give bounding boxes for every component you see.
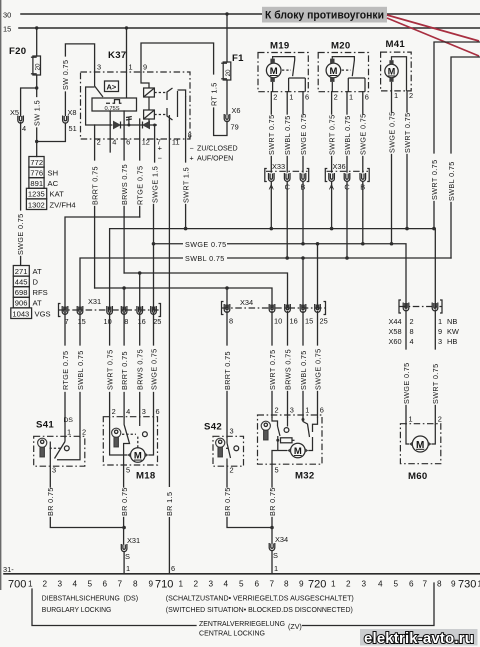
ground connector X31 S	[121, 536, 140, 574]
svg-text:700: 700	[8, 579, 26, 591]
svg-text:SWGE 1.5: SWGE 1.5	[150, 166, 159, 203]
M18 internal switch	[122, 417, 147, 465]
svg-text:M18: M18	[136, 471, 156, 482]
bus SWGE (H2) with inline label	[152, 238, 406, 307]
M18 key symbol	[112, 428, 121, 447]
svg-text:X31: X31	[127, 536, 140, 545]
svg-text:BR 0.75: BR 0.75	[120, 487, 129, 516]
wire label BR 1.5 (K37 pin11 to ground)	[164, 487, 176, 573]
svg-text:SW 1.5: SW 1.5	[32, 100, 41, 126]
svg-text:3: 3	[209, 580, 214, 589]
svg-text:4: 4	[73, 580, 78, 589]
svg-text:RFS: RFS	[33, 288, 48, 297]
S42 pin 2 output	[223, 466, 272, 528]
svg-text:RTGE 0.75: RTGE 0.75	[61, 351, 70, 390]
X36 terminal C	[344, 173, 350, 192]
X31 terminal 16	[137, 306, 146, 326]
bottom text block	[42, 595, 354, 638]
svg-text:2: 2	[275, 406, 279, 415]
svg-text:ZENTRALVERRIEGELUNG: ZENTRALVERRIEGELUNG	[199, 620, 285, 628]
svg-text:BURGLARY LOCKING: BURGLARY LOCKING	[42, 606, 112, 614]
wire label SWGE 1.5 (K37 pin7)	[150, 166, 159, 310]
X33 output wires	[271, 182, 303, 259]
M41 pins 1 2	[392, 91, 414, 112]
svg-text:1: 1	[274, 564, 278, 573]
svg-text:9: 9	[299, 580, 304, 589]
svg-text:2: 2	[273, 93, 277, 102]
svg-text:9: 9	[451, 580, 456, 589]
svg-text:SWGE 0.75: SWGE 0.75	[16, 213, 25, 255]
K37 internal: bottom bus with diodes	[86, 87, 157, 129]
wire branch to X5	[21, 88, 37, 116]
K37 internal: input switch from pin 3	[95, 72, 103, 97]
X33 terminal C	[284, 173, 290, 192]
svg-text:X36: X36	[333, 162, 346, 171]
switch S42 (passenger door lock)	[204, 422, 244, 467]
svg-text:F20: F20	[9, 46, 26, 57]
svg-text:SWRT 0.75: SWRT 0.75	[267, 115, 276, 156]
left scan border	[0, 0, 2, 590]
svg-text:(DS): (DS)	[124, 595, 139, 603]
svg-text:SWRT 0.75: SWRT 0.75	[430, 160, 439, 201]
svg-text:6: 6	[409, 580, 414, 589]
node: F1 feed junction on 30 rail	[225, 12, 228, 15]
svg-text:BRRT 0.75: BRRT 0.75	[90, 166, 99, 205]
X34 terminal 15	[300, 304, 313, 326]
svg-text:5: 5	[275, 466, 279, 475]
svg-text:BRRT 0.75: BRRT 0.75	[120, 351, 129, 390]
svg-text:S: S	[273, 551, 278, 560]
svg-text:RTGE 0.75: RTGE 0.75	[136, 166, 145, 205]
wires X44 to M60	[402, 310, 440, 424]
svg-text:2: 2	[409, 91, 413, 100]
section bracket ZV	[32, 583, 434, 626]
svg-text:A>: A>	[107, 83, 117, 92]
svg-text:BRWS 0.75: BRWS 0.75	[136, 349, 145, 390]
track ref stack 772/776/891/1235/1302	[26, 157, 75, 210]
svg-text:710: 710	[155, 579, 173, 591]
relay K37	[81, 28, 191, 139]
fuse F20	[9, 28, 42, 75]
fuse F1	[221, 14, 244, 80]
svg-text:KAT: KAT	[50, 190, 65, 199]
svg-text:SWRT 0.75: SWRT 0.75	[403, 113, 412, 154]
svg-text:BR 0.75: BR 0.75	[268, 487, 277, 516]
svg-text:SWRT 0.75: SWRT 0.75	[268, 350, 277, 391]
svg-text:SWGE 0.75: SWGE 0.75	[402, 362, 411, 404]
svg-text:730: 730	[458, 579, 476, 591]
S41 pin 3 output	[46, 466, 124, 528]
svg-text:(SWITCHED SITUATION• BLOCKED.D: (SWITCHED SITUATION• BLOCKED.DS DISCONNE…	[166, 606, 353, 614]
X31 terminal 25	[151, 306, 162, 326]
svg-text:SWBL 0.75: SWBL 0.75	[343, 115, 352, 155]
svg-text:BR 0.75: BR 0.75	[223, 487, 232, 516]
svg-text:6: 6	[103, 580, 108, 589]
K37 internal: changeover contact	[167, 88, 186, 121]
svg-text:SWBL 0.75: SWBL 0.75	[185, 254, 225, 263]
svg-text:9: 9	[143, 63, 147, 72]
svg-text:NB: NB	[447, 317, 457, 326]
connector X44/X58/X60	[389, 300, 459, 346]
svg-text:15: 15	[78, 317, 86, 326]
svg-text:8: 8	[437, 580, 442, 589]
svg-text:SWGE 0.75: SWGE 0.75	[359, 113, 368, 155]
svg-text:К блоку противоугонки: К блоку противоугонки	[265, 10, 384, 22]
svg-text:5: 5	[126, 466, 130, 475]
labels ZU/CLOSED AUF/OPEN	[190, 145, 238, 163]
svg-text:10: 10	[274, 317, 282, 326]
svg-text:D: D	[33, 278, 39, 287]
M19 motor	[266, 59, 281, 82]
svg-text:30: 30	[3, 11, 11, 20]
red pointer line 2	[387, 18, 479, 56]
svg-text:772: 772	[30, 158, 43, 167]
bus SWRT (H1)	[110, 227, 436, 310]
M32 key symbol	[261, 421, 270, 440]
M19 internal switch	[273, 57, 306, 92]
svg-text:ZU/CLOSED: ZU/CLOSED	[197, 145, 238, 153]
svg-text:SW 0.75: SW 0.75	[61, 60, 70, 90]
M20 motor	[326, 59, 341, 82]
svg-text:SWRT 1.5: SWRT 1.5	[181, 167, 190, 203]
motor assembly M19	[258, 41, 308, 92]
svg-text:2: 2	[82, 428, 86, 437]
svg-text:12: 12	[142, 138, 150, 147]
wire label BRRT 0.75 (K37 pin2)	[90, 166, 99, 288]
svg-text:M32: M32	[295, 471, 315, 482]
svg-text:271: 271	[15, 267, 28, 276]
svg-text:2: 2	[194, 580, 199, 589]
svg-text:2: 2	[410, 317, 414, 326]
svg-text:AT: AT	[33, 267, 43, 276]
svg-text:51: 51	[69, 124, 77, 133]
svg-text:1: 1	[289, 93, 293, 102]
svg-text:2: 2	[346, 580, 351, 589]
svg-text:M: M	[330, 66, 338, 77]
svg-text:X60: X60	[389, 337, 402, 346]
svg-text:X8: X8	[68, 108, 77, 117]
svg-text:1: 1	[126, 564, 130, 573]
S42 contacts	[226, 437, 239, 466]
svg-text:SH: SH	[48, 169, 59, 178]
svg-text:6: 6	[255, 580, 260, 589]
svg-text:SWBL 0.75: SWBL 0.75	[76, 350, 85, 390]
svg-text:20: 20	[225, 69, 232, 77]
svg-text:906: 906	[15, 299, 28, 308]
X34 terminal 10	[269, 304, 282, 326]
X36 output wires	[332, 182, 363, 259]
svg-text:1: 1	[394, 91, 398, 100]
node: F20 feed junction on 15 rail	[35, 26, 38, 29]
M32 pin 5 output	[268, 464, 279, 543]
svg-text:3: 3	[58, 580, 63, 589]
red pointer line 1	[387, 15, 479, 41]
svg-text:1: 1	[305, 406, 309, 415]
K37 internal: relay coil 1	[141, 72, 166, 97]
svg-text:S42: S42	[204, 422, 222, 433]
svg-text:BR 1.5: BR 1.5	[165, 492, 174, 516]
X31 lower wire labels	[61, 348, 159, 390]
svg-text:AT: AT	[33, 299, 43, 308]
svg-text:X34: X34	[240, 298, 253, 307]
X31 terminal 7	[62, 306, 68, 326]
svg-text:15: 15	[305, 317, 313, 326]
svg-text:20: 20	[35, 63, 42, 71]
svg-text:X44: X44	[389, 317, 402, 326]
svg-text:7: 7	[118, 580, 123, 589]
svg-text:AUF/OPEN: AUF/OPEN	[197, 155, 233, 163]
svg-text:(ZV): (ZV)	[288, 623, 302, 631]
svg-text:3: 3	[438, 337, 442, 346]
svg-text:M60: M60	[408, 471, 428, 482]
svg-text:1: 1	[331, 580, 336, 589]
svg-text:S41: S41	[36, 420, 54, 431]
svg-text:SWGE 0.75: SWGE 0.75	[313, 348, 322, 390]
svg-text:SWGE 0.75: SWGE 0.75	[185, 240, 227, 249]
motor M41	[381, 39, 412, 91]
svg-text:6: 6	[365, 93, 369, 102]
M18 pin 5 output	[120, 465, 130, 544]
svg-text:8: 8	[410, 327, 414, 336]
wires X31 to M18	[109, 314, 111, 346]
label to anti-theft unit (gray)	[262, 7, 387, 23]
svg-text:5: 5	[394, 580, 399, 589]
svg-text:(SCHALTZUSTAND• VERRIEGELT.DS: (SCHALTZUSTAND• VERRIEGELT.DS AUSGESCHAL…	[166, 595, 354, 603]
link BRWS to X34 pin 16	[124, 271, 287, 310]
svg-text:7: 7	[270, 580, 275, 589]
svg-text:RT 1.5: RT 1.5	[209, 82, 218, 106]
svg-text:M41: M41	[386, 39, 406, 50]
svg-text:7: 7	[423, 580, 428, 589]
svg-text:X31: X31	[88, 297, 101, 306]
svg-text:ZV/FH4: ZV/FH4	[50, 200, 76, 209]
connector X5 pin 4	[10, 108, 26, 133]
svg-text:3: 3	[52, 466, 56, 475]
S41 contacts	[50, 437, 81, 466]
svg-text:3: 3	[230, 427, 234, 436]
watermark elektrik-avto.ru	[360, 629, 478, 647]
wires X34 to M32	[271, 312, 273, 346]
wire X5 down / label SWGE 0.75	[16, 123, 25, 266]
svg-text:8: 8	[133, 580, 138, 589]
svg-text:SWGE 0.75: SWGE 0.75	[149, 348, 158, 390]
X33 terminal B	[300, 173, 306, 192]
switch S41 (driver door lock)	[34, 417, 86, 466]
svg-text:2: 2	[97, 138, 101, 147]
svg-text:2: 2	[438, 415, 442, 424]
svg-text:9: 9	[149, 580, 154, 589]
svg-text:9: 9	[438, 327, 442, 336]
bus SWBL (H3) with inline label	[80, 252, 451, 310]
X34 terminal 16	[285, 304, 298, 326]
track ref stack 271/445/698/906/1043	[11, 266, 51, 319]
wire down to 772 stack	[36, 142, 38, 157]
svg-text:2: 2	[334, 93, 338, 102]
K37 pin stubs and numbers	[95, 97, 192, 574]
M19 pins 2 1 6	[271, 92, 309, 114]
M41 wire labels	[387, 111, 412, 243]
svg-text:4: 4	[126, 407, 130, 416]
svg-text:1: 1	[28, 580, 33, 589]
svg-text:1: 1	[438, 317, 442, 326]
connector X6 pin 79	[224, 106, 240, 132]
svg-text:16: 16	[290, 317, 298, 326]
K37 internal: timer 0.75s	[92, 72, 137, 112]
svg-text:5: 5	[239, 580, 244, 589]
svg-text:1: 1	[129, 63, 133, 72]
svg-text:BRRT 0.75: BRRT 0.75	[223, 351, 232, 390]
svg-text:CENTRAL LOCKING: CENTRAL LOCKING	[199, 630, 265, 638]
M32 motor	[272, 437, 313, 464]
svg-text:F1: F1	[232, 53, 244, 64]
svg-text:HB: HB	[447, 337, 457, 346]
wire F20 to junction	[36, 75, 38, 97]
svg-text:SWBL 0.75: SWBL 0.75	[447, 161, 456, 201]
svg-text:SWBL 0.75: SWBL 0.75	[299, 350, 308, 390]
X31 terminal 8	[121, 306, 128, 326]
svg-text:79: 79	[231, 123, 239, 132]
svg-text:8: 8	[124, 317, 128, 326]
M32 internal contacts	[272, 417, 318, 451]
current track ruler	[3, 565, 480, 591]
svg-text:10: 10	[104, 317, 112, 326]
svg-text:S: S	[125, 552, 130, 561]
svg-text:SWGE 0.75: SWGE 0.75	[299, 113, 308, 155]
connector X8 pin 51	[63, 108, 77, 133]
svg-text:4: 4	[112, 138, 116, 147]
X34 terminal 25	[315, 304, 328, 326]
K37 internal: electronic unit A>	[105, 81, 119, 92]
svg-text:8: 8	[188, 131, 192, 140]
M20 pins 2 1 6	[332, 92, 369, 114]
svg-text:+: +	[190, 155, 194, 163]
svg-text:X34: X34	[275, 535, 288, 544]
svg-text:8: 8	[284, 580, 289, 589]
M19 wire labels	[267, 113, 308, 172]
wire RT 1.5 from X6 to K37 pin 9	[141, 43, 227, 136]
wires X31 to S41	[64, 314, 66, 346]
wire SWRT 0.75 to anti-theft unit	[430, 42, 480, 229]
wire branch to X8	[37, 123, 66, 142]
svg-text:2: 2	[230, 466, 234, 475]
svg-text:VGS: VGS	[35, 309, 51, 318]
svg-text:11: 11	[172, 138, 180, 147]
svg-text:M: M	[416, 440, 424, 451]
svg-text:SWRT 0.75: SWRT 0.75	[105, 350, 114, 391]
wire X34-8 to S42	[226, 312, 228, 438]
svg-text:AC: AC	[48, 179, 59, 188]
svg-text:−: −	[158, 154, 162, 163]
svg-text:M20: M20	[331, 41, 351, 52]
door motor assembly M18	[103, 407, 159, 482]
wire X8 up, label SW 0.75, to K37 pin 3	[61, 44, 94, 116]
svg-text:DS: DS	[64, 417, 74, 424]
svg-text:4: 4	[224, 580, 229, 589]
svg-text:SWRT 0.75: SWRT 0.75	[327, 115, 336, 156]
svg-text:8: 8	[229, 317, 233, 326]
bus 30 rail	[3, 11, 480, 20]
X36 terminal B	[360, 173, 366, 192]
node: K37 pin1 feed junction on 15 rail	[125, 26, 128, 29]
bus 15 rail	[3, 25, 480, 34]
M18 motor	[110, 417, 154, 462]
svg-text:776: 776	[30, 169, 43, 178]
svg-text:1235: 1235	[28, 190, 45, 199]
link BRRT to X31 pin 8 / X34 pins 8,10	[95, 286, 272, 310]
M20 internal switch	[332, 57, 365, 92]
svg-text:M: M	[294, 446, 302, 457]
S41 key symbol	[38, 438, 47, 457]
svg-text:−: −	[190, 145, 194, 153]
S42 key symbol	[216, 438, 225, 457]
connector strip X34	[222, 298, 326, 315]
link RTGE to X31 pin 7	[65, 217, 140, 310]
X34 lower wire labels	[223, 348, 322, 390]
svg-text:3: 3	[290, 406, 294, 415]
svg-text:3: 3	[362, 580, 367, 589]
svg-text:1043: 1043	[12, 309, 29, 318]
X33 terminal A	[269, 173, 275, 192]
svg-text:KW: KW	[447, 327, 459, 336]
wire label RTGE 0.75 (K37 pin12)	[136, 166, 145, 217]
svg-text:25: 25	[320, 317, 328, 326]
svg-text:6: 6	[171, 564, 175, 573]
svg-text:6: 6	[320, 406, 324, 415]
svg-text:SWRT 0.75: SWRT 0.75	[431, 364, 440, 405]
motor M60	[400, 415, 442, 483]
svg-text:5: 5	[88, 580, 93, 589]
svg-text:BRWS 0.75: BRWS 0.75	[283, 349, 292, 390]
node: X5 branch junction	[35, 86, 38, 89]
svg-text:31-: 31-	[3, 565, 14, 574]
svg-text:SWBL 0.75: SWBL 0.75	[283, 115, 292, 155]
svg-text:M: M	[270, 66, 278, 77]
svg-text:BRWS 0.75: BRWS 0.75	[120, 164, 129, 205]
svg-text:1302: 1302	[28, 200, 45, 209]
svg-text:4: 4	[22, 124, 26, 133]
riser X34 pin 15 from SWBL bus	[301, 256, 305, 308]
svg-text:1: 1	[179, 580, 184, 589]
svg-text:+: +	[158, 144, 162, 153]
svg-text:X6: X6	[232, 106, 241, 115]
door motor assembly M32	[258, 406, 324, 482]
wire label SWRT 1.5 (K37 pin8)	[181, 167, 190, 229]
svg-text:K37: K37	[108, 50, 127, 61]
svg-text:X33: X33	[272, 162, 285, 171]
svg-text:2: 2	[112, 407, 116, 416]
svg-text:X58: X58	[389, 327, 402, 336]
svg-text:M: M	[134, 451, 142, 462]
svg-text:3: 3	[97, 63, 101, 72]
connector X36	[325, 162, 369, 182]
svg-text:891: 891	[30, 179, 43, 188]
svg-text:M19: M19	[270, 41, 290, 52]
svg-text:BR 0.75: BR 0.75	[46, 487, 55, 516]
svg-text:445: 445	[15, 278, 28, 287]
svg-text:6: 6	[305, 93, 309, 102]
svg-text:1: 1	[349, 93, 353, 102]
ground connector X34 S	[269, 535, 288, 574]
X34 terminal 8	[224, 304, 233, 326]
svg-text:elektrik-avto.ru: elektrik-avto.ru	[364, 630, 474, 647]
svg-text:1: 1	[409, 415, 413, 424]
M20 wire labels	[327, 113, 367, 172]
svg-text:0.75S: 0.75S	[105, 106, 120, 112]
X31 terminal 10	[104, 306, 113, 326]
wire label BRWS 0.75 (K37 pin6)	[120, 164, 129, 273]
motor assembly M20	[318, 41, 368, 92]
X36 terminal A	[329, 173, 335, 192]
